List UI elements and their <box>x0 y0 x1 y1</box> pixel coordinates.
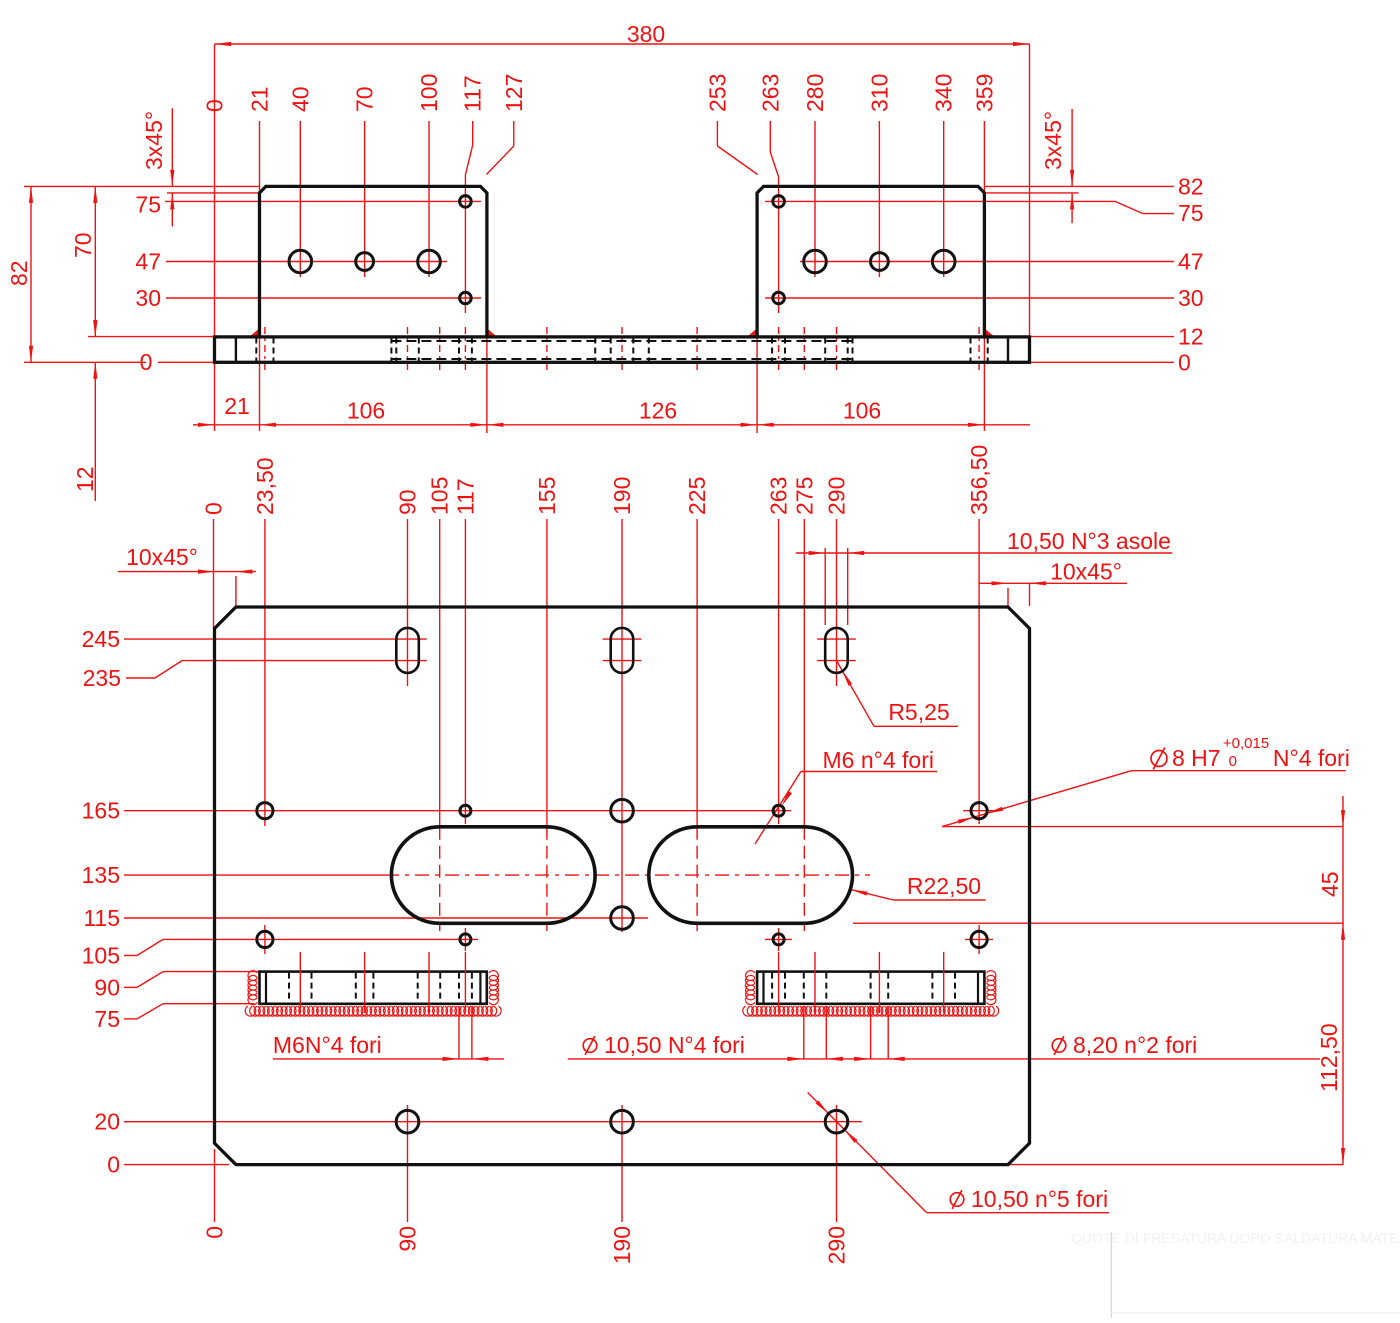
centerline stub col 225 <box>696 327 698 374</box>
plan column line 290 <box>824 477 850 686</box>
weld fillet right bracket left side <box>747 328 757 337</box>
svg-text:245: 245 <box>82 626 120 652</box>
plan column line 275 <box>791 477 817 931</box>
svg-text:0: 0 <box>140 349 153 375</box>
crosshair tick 165-row right circle <box>963 810 996 812</box>
chamfer dim 3x45 left <box>141 108 260 226</box>
hole 40 left bracket <box>289 250 312 273</box>
front column line 0 <box>202 44 228 431</box>
front line 0 (right) <box>1030 349 1191 375</box>
plan column line 90 <box>395 489 421 686</box>
hole D10,50 at (90,20) <box>396 1110 419 1133</box>
svg-text:100: 100 <box>416 74 442 112</box>
svg-text:10x45°: 10x45° <box>1050 559 1122 585</box>
plan column line 190 <box>609 477 635 932</box>
weld bead block 2 <box>743 971 999 1017</box>
callout M6N.4 fori (bottom) <box>273 1006 504 1061</box>
svg-text:380: 380 <box>627 21 665 47</box>
callout M6 n.4 fori <box>755 747 937 844</box>
svg-text:40: 40 <box>287 86 313 112</box>
front column line 40 <box>287 86 313 277</box>
arrows 126/106 right <box>741 423 985 427</box>
dimension 10,50 N.3 asole <box>796 528 1173 625</box>
svg-text:75: 75 <box>94 1006 120 1032</box>
svg-text:21: 21 <box>247 86 273 112</box>
base plate chamfer line right <box>1007 337 1009 362</box>
ext line 127 bottom <box>486 337 488 433</box>
weld block centerline 263 <box>778 952 780 1013</box>
plan column line 23,50 <box>252 457 278 826</box>
svg-text:275: 275 <box>791 477 817 515</box>
hole 263/75 right bracket <box>773 196 785 208</box>
obround cutout 1 (R22,50) <box>391 827 595 924</box>
dim text 21 <box>224 393 250 419</box>
weld fillet right bracket right side <box>984 328 994 337</box>
svg-text:20: 20 <box>94 1109 120 1135</box>
right 380 extension line <box>1029 44 1031 337</box>
svg-text:106: 106 <box>843 398 881 424</box>
weld block centerline 100 <box>428 952 430 1013</box>
svg-text:M6N°4 fori: M6N°4 fori <box>273 1032 382 1058</box>
hole D8 H7 at (356.5,165) <box>971 803 987 819</box>
centerline stub col 356.5 <box>978 327 980 374</box>
svg-text:3x45°: 3x45° <box>1040 111 1066 170</box>
weld fillet left bracket left side <box>249 328 259 337</box>
hole 340 right bracket <box>932 250 955 273</box>
svg-text:82: 82 <box>6 260 32 286</box>
front column leader 253 <box>704 74 757 175</box>
weld block centerline 310 <box>878 952 880 1013</box>
hidden hole lines vertical (base plate) <box>256 338 987 362</box>
svg-text:280: 280 <box>802 74 828 112</box>
svg-text:105: 105 <box>427 477 453 515</box>
plan column line 0 <box>201 502 227 628</box>
front line 47 (left) <box>135 249 447 275</box>
base plate chamfer line left <box>235 337 237 362</box>
svg-text:3x45°: 3x45° <box>141 111 167 170</box>
weld block centerline 340 <box>943 952 945 1013</box>
plan line 90 leader <box>94 972 259 1001</box>
hole D8 H7 at (23.5,165) <box>257 803 273 819</box>
hole 70 left bracket <box>356 253 374 271</box>
weld block 1 outline (plan) <box>260 972 487 1004</box>
svg-text:359: 359 <box>971 74 997 112</box>
weld block centerline 280 <box>814 952 816 1013</box>
svg-text:82: 82 <box>1178 173 1204 199</box>
plan line 235 leader <box>83 661 856 691</box>
svg-text:0: 0 <box>1178 349 1191 375</box>
front line 82 (right) <box>984 173 1203 199</box>
svg-text:QUOTE DI FRESATURA DOPO SALDAT: QUOTE DI FRESATURA DOPO SALDATURA MATERI… <box>1071 1230 1400 1246</box>
plan column line 225 <box>684 477 710 931</box>
svg-text:47: 47 <box>1178 249 1204 275</box>
svg-text:115: 115 <box>83 905 120 931</box>
svg-text:117: 117 <box>460 75 486 112</box>
plate outline (plan view) <box>215 607 1030 1165</box>
centerline stub col 263 <box>778 327 780 374</box>
plan column line 263 <box>766 477 792 824</box>
weld block centerline 117 <box>464 952 466 1013</box>
svg-text:+0,015: +0,015 <box>1223 735 1269 752</box>
hole M6 at (263,105) <box>773 934 784 945</box>
svg-text:263: 263 <box>757 74 783 112</box>
hidden lines horizontal (base plate) <box>391 341 852 359</box>
slot asola 3 (10,50) <box>825 628 848 673</box>
front line 47 (right) <box>800 249 1204 275</box>
svg-text:225: 225 <box>684 477 710 515</box>
centerline stub col 117 <box>464 327 466 374</box>
front column line 340 <box>931 74 957 277</box>
svg-text:0: 0 <box>202 99 228 112</box>
callout R5,25 <box>837 661 959 727</box>
hole 310 right bracket <box>871 253 889 271</box>
dimension 12 thickness (left) <box>72 320 98 501</box>
dimension 10x45 top right <box>979 559 1127 607</box>
plan column line 117 <box>452 478 478 824</box>
svg-text:10,50 N°4 fori: 10,50 N°4 fori <box>604 1032 745 1058</box>
svg-text:12: 12 <box>1178 324 1204 350</box>
svg-text:70: 70 <box>352 86 378 112</box>
hole D10,50 at (290,20) <box>825 1110 848 1133</box>
front column line 359 <box>971 74 997 431</box>
hole D8 H7 at (356.5,105) <box>971 931 987 947</box>
weld block centerline 40 <box>299 952 301 1013</box>
svg-text:12: 12 <box>72 466 98 492</box>
hole M6 at (263,165) <box>773 805 784 816</box>
arrows 21 <box>198 423 276 427</box>
svg-text:10,50 N°3 asole: 10,50 N°3 asole <box>1007 528 1171 554</box>
hole D10,50 at (190,115) <box>611 907 634 930</box>
dimension 10x45 top left <box>118 544 256 606</box>
centerline stub col 275 <box>803 327 805 374</box>
plan line 0 <box>107 1152 229 1178</box>
svg-text:235: 235 <box>83 665 121 691</box>
hole 280 right bracket <box>804 250 827 273</box>
hole 263/30 right bracket <box>773 292 785 304</box>
front column line 280 <box>802 74 828 277</box>
left bracket outline (front view) <box>260 186 487 337</box>
svg-text:10x45°: 10x45° <box>126 544 198 570</box>
centerline stub col 90 <box>407 327 409 374</box>
callout diam 10,50 N.4 fori (bottom) <box>568 1006 1320 1061</box>
plan bottom column line 0 <box>202 1149 228 1239</box>
plan column line 155 <box>534 477 560 931</box>
plan line 105 leader <box>82 939 478 968</box>
front column leader 127 <box>487 74 527 175</box>
svg-text:R5,25: R5,25 <box>888 699 949 725</box>
plan line 165 <box>82 798 791 824</box>
svg-text:310: 310 <box>866 74 892 112</box>
front column line 21 <box>247 86 273 431</box>
svg-text:290: 290 <box>824 1226 850 1264</box>
front column line 100 <box>416 74 442 277</box>
hidden holes left weld block <box>289 973 472 1003</box>
svg-text:70: 70 <box>70 232 96 258</box>
faint title block <box>1071 1230 1400 1318</box>
svg-text:45: 45 <box>1317 871 1343 897</box>
plan bottom column line 290 <box>824 1105 850 1264</box>
svg-text:105: 105 <box>82 943 120 969</box>
plan line 245 <box>82 626 856 652</box>
svg-text:10,50 n°5 fori: 10,50 n°5 fori <box>971 1186 1108 1212</box>
dimension 45 (right) <box>1317 796 1345 1165</box>
svg-text:117: 117 <box>452 478 478 515</box>
svg-text:0: 0 <box>1229 753 1237 770</box>
front column line 310 <box>866 74 892 277</box>
svg-text:135: 135 <box>82 862 120 888</box>
plan line 115 <box>83 905 648 931</box>
svg-text:112,50: 112,50 <box>1316 1023 1342 1092</box>
svg-text:340: 340 <box>931 74 957 112</box>
svg-text:M6 n°4 fori: M6 n°4 fori <box>823 747 934 773</box>
dim text 126 <box>639 398 677 424</box>
front line 30 (left) <box>135 285 481 311</box>
svg-text:8 H7: 8 H7 <box>1172 745 1221 771</box>
plan column line 105 <box>427 477 453 931</box>
dimension 70 (left) <box>70 186 215 336</box>
ext line 253 bottom <box>756 337 758 433</box>
plan bottom column line 190 <box>609 1105 635 1264</box>
dimension 112,50 (right) <box>1316 1023 1342 1092</box>
svg-text:N°4 fori: N°4 fori <box>1273 745 1350 771</box>
centerline stub col 105 <box>439 327 441 374</box>
weld block centerline 70 <box>364 952 366 1013</box>
svg-text:0: 0 <box>107 1152 120 1178</box>
centerline stub col 23.5 <box>264 327 266 374</box>
weld bead block 1 <box>245 971 501 1017</box>
front datum 0 label (left) <box>140 349 215 375</box>
callout diam 8 H7 N.4 fori <box>942 735 1350 827</box>
svg-text:75: 75 <box>1178 200 1204 226</box>
callout diam 8,20 n.2 fori <box>854 1006 1197 1061</box>
svg-text:263: 263 <box>766 477 792 515</box>
svg-text:8,20 n°2 fori: 8,20 n°2 fori <box>1073 1032 1197 1058</box>
hole 100 left bracket <box>418 250 441 273</box>
front line 12 (right) <box>1030 324 1204 350</box>
slot asola 1 (10,50) <box>396 628 419 673</box>
dimension 380 overall width (front view) <box>215 21 1030 47</box>
arrows 106 left <box>470 423 503 427</box>
callout diam 10,50 n.5 fori <box>808 1093 1109 1213</box>
hole M6 at (117,165) <box>460 805 471 816</box>
obround cutout 2 (R22,50) <box>649 827 853 924</box>
chamfer dim 3x45 right <box>984 109 1078 223</box>
obround tangent extension lines <box>853 827 1343 1165</box>
centerline stub col 155 <box>546 327 548 374</box>
right bracket outline (front view) <box>757 186 984 337</box>
svg-text:356,50: 356,50 <box>966 445 992 515</box>
weld block 2 outline (plan) <box>757 972 984 1004</box>
svg-text:127: 127 <box>501 74 527 112</box>
plan bottom column line 90 <box>395 1105 421 1252</box>
centerline stub col 290 <box>836 327 838 374</box>
svg-text:47: 47 <box>135 249 161 275</box>
svg-text:30: 30 <box>135 285 161 311</box>
base plate (front view) <box>215 337 1030 362</box>
crosshair ticks 105-row circles <box>265 925 993 954</box>
hole D10,50 at (190,165) <box>611 799 634 822</box>
front column leader 263 <box>757 74 783 313</box>
svg-text:75: 75 <box>135 191 161 217</box>
weld fillet left bracket right side <box>487 328 497 337</box>
hole M6 at (117,105) <box>460 934 471 945</box>
hole D10,50 at (190,20) <box>611 1110 634 1133</box>
hole D8 H7 at (23.5,105) <box>257 931 273 947</box>
svg-text:R22,50: R22,50 <box>907 873 981 899</box>
svg-text:165: 165 <box>82 798 120 824</box>
front line 75 (right) <box>765 200 1204 226</box>
dim text 106 left <box>347 398 385 424</box>
plan column line 356,50 <box>966 445 992 824</box>
dim text 106 right <box>843 398 881 424</box>
callout R22,50 <box>851 873 986 900</box>
front column line 70 <box>352 86 378 277</box>
svg-text:90: 90 <box>395 1226 421 1252</box>
front line 75 (left) <box>135 191 481 217</box>
dimension 82 height (left) <box>6 186 166 362</box>
plan line 75 leader <box>94 1004 254 1032</box>
svg-text:0: 0 <box>201 502 227 515</box>
svg-text:106: 106 <box>347 398 385 424</box>
plan line 20 <box>94 1109 862 1135</box>
svg-text:155: 155 <box>534 477 560 515</box>
hole 117/75 left bracket <box>460 196 472 208</box>
svg-text:30: 30 <box>1178 285 1204 311</box>
svg-text:0: 0 <box>202 1226 228 1239</box>
svg-text:21: 21 <box>224 393 250 419</box>
svg-text:253: 253 <box>704 74 730 112</box>
front line 30 (right) <box>765 285 1204 311</box>
hidden holes right weld block <box>772 973 955 1003</box>
front column leader 117 <box>460 75 486 313</box>
svg-text:90: 90 <box>94 974 120 1000</box>
front bottom dimension chain line <box>193 424 1030 426</box>
svg-text:90: 90 <box>395 489 421 515</box>
svg-text:190: 190 <box>609 477 635 515</box>
hole 117/30 left bracket <box>460 292 472 304</box>
svg-text:190: 190 <box>609 1226 635 1264</box>
svg-text:126: 126 <box>639 398 677 424</box>
centerline stub col 190 <box>621 327 623 374</box>
slot asola 2 (10,50) <box>611 628 634 673</box>
svg-text:290: 290 <box>824 477 850 515</box>
svg-text:23,50: 23,50 <box>252 457 278 515</box>
plan line 135 <box>82 862 870 888</box>
